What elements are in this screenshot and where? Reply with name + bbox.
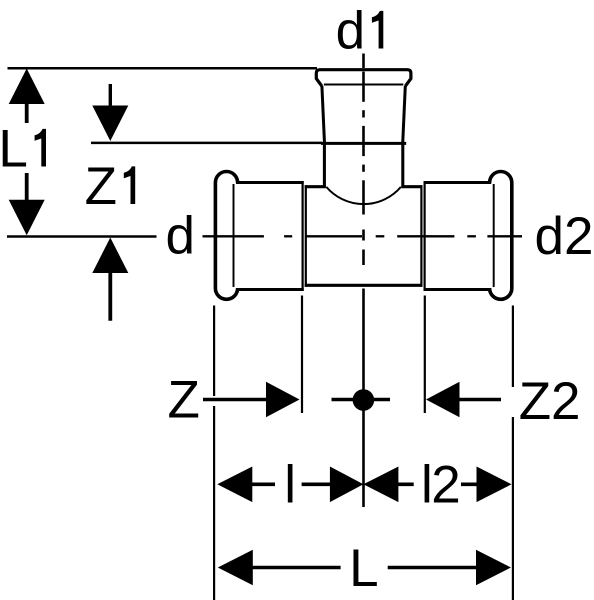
- horizontal centerline (axis of run, with gap for label d): [7, 235, 522, 238]
- label L1: [0, 120, 46, 179]
- tee right press-end bead: [490, 172, 512, 300]
- svg-text:L: L: [349, 539, 378, 598]
- extension line left socket stop (x=302): [301, 296, 303, 414]
- dimension Z arrow right: [203, 382, 300, 418]
- vertical centerline (axis of branch): [362, 54, 365, 508]
- label d: [166, 207, 195, 266]
- tee left press-end bead: [215, 172, 237, 300]
- label Z2: [519, 372, 581, 431]
- svg-text:Z2: Z2: [519, 372, 581, 431]
- label l2: [421, 456, 461, 515]
- label Z1: [85, 157, 136, 216]
- branch socket depth step line: [321, 142, 406, 145]
- svg-text:d2: d2: [535, 207, 594, 266]
- branch tube walls: [324, 143, 402, 187]
- label Z: [168, 371, 200, 430]
- tee right socket outline: [421, 181, 491, 291]
- dimension Z1 arrow up (below axis): [92, 238, 128, 321]
- center dot terminator: [332, 389, 391, 411]
- label d1: [336, 2, 384, 61]
- reference line top (crown plane of branch): [8, 67, 318, 70]
- extension line left (x=214): [213, 306, 215, 600]
- dimension l arrow right (to axis): [302, 467, 364, 503]
- extension line right (x=513): [512, 306, 514, 600]
- dimension l2 arrow right: [461, 467, 512, 503]
- dimension l arrow left: [217, 467, 275, 503]
- svg-text:Z: Z: [168, 371, 200, 430]
- branch collar sides: [322, 86, 405, 143]
- dimension L1 arrow down: [9, 173, 45, 235]
- dimension L1 arrow up: [9, 69, 45, 124]
- label L: [349, 539, 378, 598]
- svg-text:2: 2: [431, 456, 460, 515]
- svg-text:L: L: [0, 120, 28, 179]
- svg-text:l: l: [284, 456, 296, 515]
- dimension l2 arrow left (from axis): [363, 467, 413, 503]
- svg-text:d: d: [166, 207, 195, 266]
- dimension Z2 arrow left: [426, 382, 501, 418]
- reference line Z1 (branch socket depth plane): [91, 142, 322, 145]
- label l: [284, 456, 296, 515]
- branch bore arc inside body: [326, 187, 401, 204]
- dimension L arrow left: [218, 550, 341, 586]
- dimension L arrow right: [388, 550, 511, 586]
- extension line right socket stop (x=425): [424, 296, 426, 414]
- svg-text:Z: Z: [85, 157, 117, 216]
- svg-text:d: d: [336, 2, 365, 61]
- tee body outline: [305, 187, 423, 286]
- tee left socket outline: [236, 181, 306, 291]
- dimension Z1 arrow down: [92, 84, 128, 141]
- label d2: [535, 207, 594, 266]
- branch press-end bead (top): [316, 70, 411, 87]
